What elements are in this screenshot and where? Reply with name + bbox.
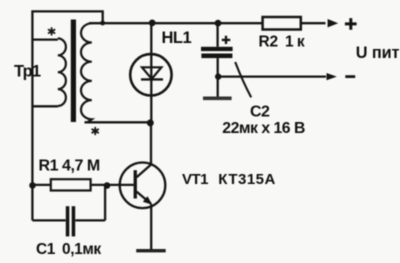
svg-text:C1: C1 [36, 241, 56, 258]
node dot: collector junction [147, 119, 154, 126]
svg-text:R1 4,7 М: R1 4,7 М [39, 158, 100, 175]
polarity mark (asterisk) left winding [49, 28, 55, 35]
svg-text:22мк х 16 В: 22мк х 16 В [222, 120, 305, 137]
svg-text:HL1: HL1 [162, 29, 192, 47]
VT1 emitter arrow [143, 196, 153, 205]
lamp HL1 circle [130, 54, 171, 95]
svg-text:U пит: U пит [356, 44, 400, 62]
svg-text:VT1: VT1 [182, 171, 208, 188]
wire: left winding top connector [32, 38, 58, 40]
arrowhead + output [328, 19, 339, 27]
VT1 collector stroke [137, 164, 152, 177]
wire: base node down to C1 wire [104, 185, 106, 221]
polarity mark (asterisk) right winding [92, 128, 98, 135]
svg-text:0,1мк: 0,1мк [62, 241, 101, 258]
svg-text:1 к: 1 к [285, 34, 305, 51]
capacitor C2 plate top [201, 47, 233, 51]
wire: left winding bottom connector [32, 105, 58, 107]
node dot: base / C1 junction [104, 182, 111, 189]
wire: C1 to base column [75, 219, 105, 221]
HL1 diode triangle [142, 67, 161, 79]
node dot: C2 / minus rail junction [215, 73, 221, 79]
transistor VT1 circle [120, 163, 166, 209]
arrowhead - output [327, 73, 337, 80]
svg-text:КТ315А: КТ315А [218, 171, 276, 188]
wire: top-left loop (left winding top to top rail) [32, 11, 102, 220]
wire: bottom run to C1 [32, 219, 65, 221]
transformer Tp1 left winding [58, 38, 66, 106]
wire: collector node down to VT1 [150, 123, 152, 165]
node dot: R1 left junction [29, 182, 36, 189]
wire: VT1 emitter to ground [150, 204, 152, 249]
VT1 base bar [134, 170, 137, 198]
C2 polarity plus mark [222, 36, 231, 44]
svg-text:C2: C2 [250, 104, 270, 121]
top rail to + output [89, 22, 326, 24]
wire: HL1 branch vertical [150, 23, 152, 122]
node dot: HL1 top on rail [149, 20, 156, 27]
VT1 emitter stroke [137, 192, 151, 204]
node dot: C2 top on rail [215, 20, 222, 27]
wire: C2 bottom lead [217, 58, 219, 97]
resistor R1 [51, 179, 91, 190]
svg-text:Тр1: Тр1 [14, 63, 41, 81]
capacitor C1 plate left [66, 206, 70, 236]
plus sign output [345, 18, 357, 30]
transformer Tp1 right winding [81, 23, 92, 122]
wire: R1 to VT1 base [91, 184, 134, 186]
svg-text:R2: R2 [259, 34, 278, 51]
transformer core [71, 20, 76, 123]
ground bar (emitter) [136, 249, 166, 252]
resistor R2 [263, 17, 301, 30]
HL1 cathode bar [141, 78, 163, 80]
ground bar (C2) [203, 97, 232, 101]
minus sign output [345, 75, 355, 78]
wire: C2 top lead [216, 23, 218, 47]
capacitor C1 plate right [72, 206, 76, 236]
capacitor C2 plate bottom [201, 54, 232, 59]
leader line from C2 label to capacitor [235, 62, 251, 97]
wire: right winding bottom to collector node [85, 121, 152, 123]
minus rail to - output [218, 75, 326, 77]
wire: junction to R1 [33, 184, 51, 186]
node dot: corner of top-left loop on rail [100, 21, 105, 26]
